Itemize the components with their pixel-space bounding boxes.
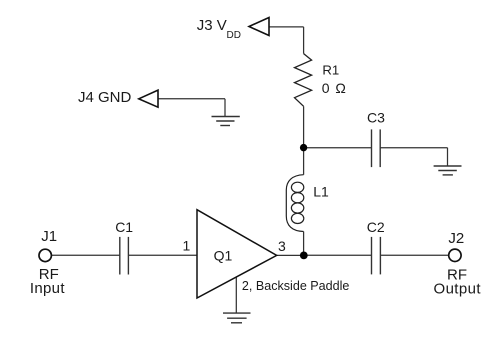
svg-text:C3: C3 [367, 110, 385, 126]
svg-text:J2: J2 [448, 230, 464, 247]
svg-text:L1: L1 [313, 184, 329, 200]
svg-text:3: 3 [278, 238, 286, 254]
svg-text:C2: C2 [367, 219, 385, 235]
svg-text:2, Backside Paddle: 2, Backside Paddle [242, 279, 350, 293]
svg-text:Output: Output [434, 280, 482, 297]
svg-text:R1: R1 [322, 63, 339, 78]
svg-text:J4 GND: J4 GND [78, 89, 132, 106]
svg-text:Input: Input [30, 280, 65, 297]
svg-text:0 Ω: 0 Ω [322, 80, 346, 96]
svg-text:1: 1 [183, 237, 191, 253]
svg-text:J1: J1 [41, 228, 57, 245]
svg-text:C1: C1 [115, 219, 133, 235]
svg-text:Q1: Q1 [214, 247, 233, 263]
